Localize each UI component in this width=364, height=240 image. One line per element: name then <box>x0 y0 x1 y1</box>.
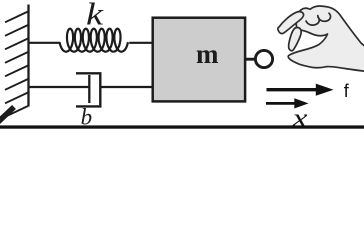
spring left wire <box>29 42 61 44</box>
mass box <box>153 18 245 102</box>
damper piston plate <box>88 75 90 103</box>
damper rod right <box>100 86 152 88</box>
svg-text:k: k <box>86 0 104 32</box>
spring right wire <box>129 42 152 44</box>
knob circle <box>255 50 272 67</box>
damper cylinder <box>76 73 100 106</box>
ground bar <box>0 125 364 128</box>
arrow x shaft <box>266 102 297 105</box>
arrow f shaft <box>267 88 319 91</box>
knuckle crease 1 <box>306 17 319 25</box>
wall hatching <box>5 12 28 117</box>
index finger <box>278 12 304 34</box>
arrow x head <box>294 98 308 108</box>
hand body <box>278 6 364 72</box>
svg-text:m: m <box>196 39 219 69</box>
spring coil k <box>60 29 129 52</box>
damper rod left <box>29 86 90 88</box>
wall <box>0 5 29 124</box>
svg-text:f: f <box>344 81 350 101</box>
wall hatch corner blob <box>0 107 14 123</box>
middle finger <box>289 27 302 50</box>
arrow f head <box>316 84 334 96</box>
knob stub <box>246 58 256 61</box>
knuckle crease 2 <box>318 13 331 21</box>
